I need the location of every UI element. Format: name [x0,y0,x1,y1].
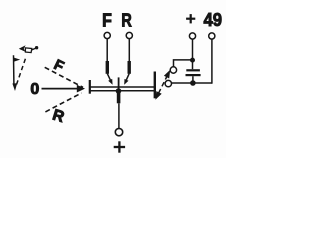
svg-text:F: F [102,9,112,30]
svg-text:49: 49 [203,9,222,30]
wire R down [128,39,130,61]
slider bar upper line [90,86,155,88]
junction dot on + line [190,58,195,63]
wire + terminal down to capacitor [192,39,194,69]
capacitor bottom plate [186,74,201,76]
slider bar lower line [90,90,155,92]
terminal 49 circle [209,33,215,39]
junction dot on bar [116,88,122,94]
bottom terminal circle [115,128,122,135]
slider bar left end [89,80,91,94]
switch lower contact circle [165,80,171,86]
switch upper contact circle [170,67,176,73]
center contact plug (thick) [117,93,121,103]
label + terminal (drawn plus) [186,14,195,23]
fan dashed line R [45,93,81,112]
lever flag [13,57,20,61]
wire F down [106,39,108,61]
mech link arrow up-right [164,70,170,79]
mechanical link dashed diagonal [159,76,168,93]
terminal + circle [189,33,195,39]
terminal R circle [126,32,132,38]
lever handle (grip) [19,45,39,52]
contact R arm + arrow [124,74,129,85]
svg-text:R: R [50,107,66,127]
contact F plug (thick) [106,61,109,74]
junction dot lower [190,80,196,86]
wire lower circle right to 49 [172,82,212,84]
fan dashed line F [45,67,83,87]
contact F arm + arrow [107,74,112,85]
svg-text:0: 0 [30,81,39,98]
contact R plug (thick) [127,61,130,74]
center contact stub above bar [118,77,120,89]
capacitor top plate [186,69,200,71]
slider bar right end [154,72,156,99]
capacitor stub down [192,76,194,83]
fan arrow 0 position (solid) [42,85,86,93]
lever alternate position (dashed) [16,59,25,86]
bottom label + (drawn plus) [114,141,125,152]
wire 49 terminal down [211,39,213,84]
terminal F circle [104,32,110,38]
wire from upper circle up and right to + line [174,60,193,67]
mech link arrow down-left [155,91,161,100]
lever shaft with arrow [12,55,17,91]
svg-text:R: R [121,10,131,31]
wire down to bottom terminal [118,103,120,128]
